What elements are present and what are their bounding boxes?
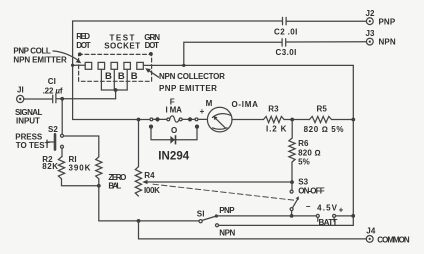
svg-text:4.5V: 4.5V xyxy=(317,203,338,212)
node bus-common junction xyxy=(137,219,141,223)
svg-text:.22 µf: .22 µf xyxy=(43,86,63,95)
wire R6 leads xyxy=(291,120,293,182)
node battery plus junction xyxy=(351,214,355,218)
svg-text:PRESS: PRESS xyxy=(15,132,43,141)
jack J1 xyxy=(17,95,24,102)
svg-text:M: M xyxy=(206,99,213,108)
svg-text:R6: R6 xyxy=(298,139,309,148)
svg-text:BAL: BAL xyxy=(108,182,121,191)
jack J2 xyxy=(366,18,373,25)
svg-text:COMMON: COMMON xyxy=(377,235,410,244)
svg-text:B: B xyxy=(118,71,125,82)
svg-text:B: B xyxy=(131,71,138,82)
fuse holder left terminal xyxy=(150,118,153,121)
wire PNP collector line: left vertical riser xyxy=(73,21,282,120)
wire socket emitter rail xyxy=(144,64,353,66)
svg-text:RED: RED xyxy=(76,32,90,41)
svg-text:I00K: I00K xyxy=(144,186,160,195)
svg-text:820 Ω 5%: 820 Ω 5% xyxy=(304,125,344,134)
capacitor C1 xyxy=(53,95,116,103)
jack J3 xyxy=(366,38,373,45)
test socket dashed outline xyxy=(79,54,152,81)
wire pin1 to PNP riser xyxy=(73,64,86,66)
svg-text:−: − xyxy=(306,202,311,211)
wire R4 wiper to S3 xyxy=(145,181,292,183)
svg-text:NPN EMITTER: NPN EMITTER xyxy=(13,56,67,65)
wire R1 bottom down to PNP bus xyxy=(99,179,199,221)
node fuse right dot xyxy=(188,117,192,121)
node pin1 junction xyxy=(71,64,74,67)
svg-text:R3: R3 xyxy=(268,105,279,114)
node C1 junction xyxy=(60,97,64,101)
svg-text:ON-OFF: ON-OFF xyxy=(298,186,325,195)
svg-text:C3.0I: C3.0I xyxy=(276,48,297,57)
wire S2 top to R1 top xyxy=(64,136,99,157)
svg-text:B: B xyxy=(105,71,112,82)
svg-text:R5: R5 xyxy=(317,105,328,114)
mechanical link R4-S3 dashed xyxy=(153,184,294,200)
svg-text:R4: R4 xyxy=(144,171,155,180)
R4 wiper arrowhead xyxy=(142,180,147,184)
wire meter to R3 xyxy=(232,119,264,121)
svg-text:I.2 K: I.2 K xyxy=(266,125,287,134)
node socket-C3 junction xyxy=(182,64,185,67)
node R6 top junction xyxy=(290,118,294,122)
switch S3 on-off xyxy=(290,182,299,216)
wire base riser to C1 line xyxy=(115,90,117,99)
svg-text:82K: 82K xyxy=(42,162,58,171)
meter M 0-1MA xyxy=(207,107,232,132)
svg-text:DOT: DOT xyxy=(76,41,91,50)
wire R4 top drop xyxy=(138,120,140,167)
svg-text:INPUT: INPUT xyxy=(16,116,40,125)
svg-text:SI: SI xyxy=(197,209,205,218)
wire pin4 drop xyxy=(126,70,128,91)
wire R2 bottom to R1 bottom xyxy=(62,179,99,186)
socket pin 4 xyxy=(124,62,130,69)
node GRN DOT bullet xyxy=(149,52,153,56)
wire J1 to C1 xyxy=(24,98,52,100)
svg-text:I MA: I MA xyxy=(166,105,183,114)
wire meter line from PNP riser xyxy=(73,119,150,121)
svg-text:NPN COLLECTOR: NPN COLLECTOR xyxy=(159,72,225,81)
svg-text:O: O xyxy=(171,126,177,135)
node diode tap left xyxy=(149,125,153,129)
svg-text:NPN: NPN xyxy=(379,38,396,47)
svg-text:CI: CI xyxy=(48,77,56,86)
wire pin2 drop xyxy=(100,70,102,91)
fuse F 1MA xyxy=(167,116,182,122)
resistor R3 xyxy=(264,116,285,122)
wire right bus to NPN contact line xyxy=(219,216,354,226)
capacitor C3 xyxy=(282,39,366,46)
svg-text:+: + xyxy=(200,107,205,116)
svg-text:S3: S3 xyxy=(298,177,308,186)
node diode tap right xyxy=(195,125,199,129)
svg-text:O-IMA: O-IMA xyxy=(232,100,259,109)
svg-text:S2: S2 xyxy=(48,125,58,134)
svg-text:5%: 5% xyxy=(298,158,310,167)
wire base bus xyxy=(101,89,127,91)
node R5 bus junction xyxy=(351,118,355,122)
wire C1 junction down to S2 xyxy=(61,99,63,134)
node RED DOT bullet xyxy=(78,52,82,56)
svg-text:SOCKET: SOCKET xyxy=(104,41,140,50)
svg-text:TO TEST: TO TEST xyxy=(16,141,50,150)
wire to fuse xyxy=(153,118,167,120)
switch S2 press-to-test xyxy=(47,134,64,149)
switch S1 pnp-npn xyxy=(199,214,219,226)
wire right bus xyxy=(352,65,354,216)
wire battery line xyxy=(216,215,353,217)
wire pin3 drop xyxy=(113,70,115,91)
socket pin 3 xyxy=(111,62,118,69)
resistor R1 xyxy=(96,157,102,179)
resistor R5 xyxy=(310,116,332,122)
svg-text:PNP: PNP xyxy=(379,17,396,26)
wire common drop to J4 line xyxy=(139,221,367,239)
wire R5 to right bus xyxy=(332,119,354,121)
svg-text:NPN: NPN xyxy=(219,229,235,238)
svg-text:J4: J4 xyxy=(366,226,376,235)
resistor R2 xyxy=(58,157,64,179)
svg-text:+: + xyxy=(339,205,344,214)
svg-text:C2 .0I: C2 .0I xyxy=(274,27,298,36)
node S3 battery junction xyxy=(290,214,294,218)
capacitor C2 xyxy=(283,17,367,24)
svg-text:390K: 390K xyxy=(69,164,91,173)
svg-text:PNP EMITTER: PNP EMITTER xyxy=(159,84,217,93)
svg-text:DOT: DOT xyxy=(145,41,160,50)
wire S2 bottom to R2 xyxy=(61,148,64,157)
socket pin 2 xyxy=(98,62,105,69)
node fuse left dot xyxy=(155,117,159,121)
svg-text:820 Ω: 820 Ω xyxy=(298,148,321,157)
node base junction xyxy=(114,88,118,92)
svg-text:RI: RI xyxy=(69,155,77,164)
socket pin 1 xyxy=(85,62,92,69)
svg-text:J3: J3 xyxy=(366,29,376,38)
wire diode branch xyxy=(151,127,197,140)
label arrow NPN COLLECTOR to pin5 xyxy=(145,68,158,77)
diode 1N294 xyxy=(170,135,176,144)
svg-text:ZERO: ZERO xyxy=(108,173,126,182)
label arrow PNP COLL to pin1 xyxy=(53,51,81,63)
svg-text:BATT: BATT xyxy=(319,218,338,227)
wire R3 to R5 xyxy=(284,119,310,121)
svg-text:PNP COLL: PNP COLL xyxy=(13,46,51,55)
wire NPN line from socket to C3 xyxy=(184,42,282,65)
node R1 bottom junction xyxy=(97,184,101,188)
node R4 top junction xyxy=(137,118,141,122)
battery BATT 4.5V xyxy=(316,214,335,221)
socket pin 5 xyxy=(137,62,144,69)
wire fuse to meter terminal xyxy=(182,118,195,120)
svg-text:PNP: PNP xyxy=(219,206,235,215)
jack J4 xyxy=(366,236,373,243)
svg-text:JI: JI xyxy=(17,85,24,94)
svg-text:IN294: IN294 xyxy=(158,150,190,162)
svg-text:J2: J2 xyxy=(366,9,376,18)
node R6 wiper junction xyxy=(290,180,294,184)
meter right holder terminal xyxy=(195,118,198,121)
resistor R4 zero bal xyxy=(135,167,141,196)
wire terminal to meter xyxy=(198,118,208,120)
resistor R6 xyxy=(289,138,295,162)
